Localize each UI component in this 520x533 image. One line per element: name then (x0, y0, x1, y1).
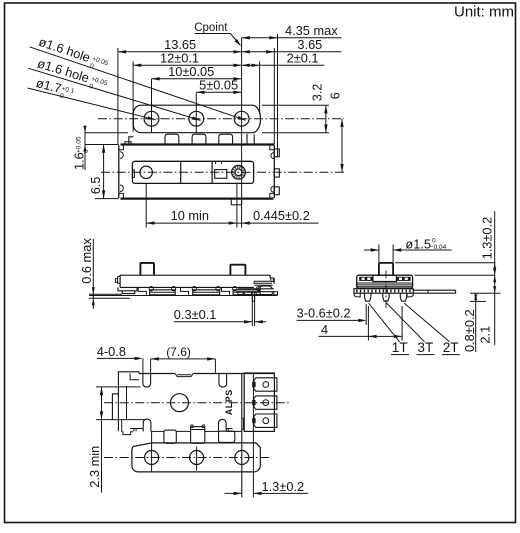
front elevation: right end base plate (236, 275, 278, 301)
dimension 6 (centerline distance) (328, 92, 343, 172)
bottom view centerline (104, 402, 290, 404)
svg-text:0: 0 (59, 93, 65, 101)
top view: terminal strip plate (133, 105, 260, 133)
side view: terminal pins (365, 293, 407, 301)
bottom view center hole (171, 394, 189, 412)
dimension 12±0.1 and 2±0.1 (133, 51, 324, 67)
svg-text:0.6 max: 0.6 max (79, 238, 94, 284)
svg-text:Cpoint: Cpoint (194, 22, 228, 34)
top-left corner piece (118, 372, 138, 386)
strip centerline (104, 457, 271, 459)
svg-text:ALPS: ALPS (224, 389, 234, 415)
pin leaders to 1T 3T 2T (369, 303, 460, 355)
body bottom edge (120, 286, 254, 288)
right foot bump (407, 293, 413, 297)
svg-text:2±0.1: 2±0.1 (287, 51, 319, 66)
bottom center tab (231, 199, 241, 205)
dimension 3.2 (strip width) (262, 84, 329, 133)
svg-text:4-0.8: 4-0.8 (97, 344, 126, 359)
knob inner circle (235, 169, 242, 176)
bottom view: body outline (112, 372, 274, 498)
front elevation: gull-wing terminals (149, 287, 261, 295)
body centerline (101, 171, 344, 173)
strip centerline (98, 118, 344, 120)
svg-text:0: 0 (83, 149, 90, 153)
cavity divider 1 (180, 161, 182, 183)
dimension 0.6 max (79, 238, 130, 309)
svg-text:−0.04: −0.04 (430, 244, 447, 251)
svg-text:5±0.05: 5±0.05 (199, 78, 238, 93)
dimension 10±0.05 (152, 64, 242, 80)
svg-text:10 min: 10 min (171, 208, 209, 223)
svg-text:1.3±0.2: 1.3±0.2 (480, 217, 495, 260)
tab TR (219, 374, 227, 388)
slider hole (alternate position) (140, 166, 152, 178)
dimension 13.65 and 3.65 (118, 37, 342, 53)
ALPS logo (224, 389, 234, 415)
tab TL (143, 374, 151, 388)
body right edge (273, 145, 275, 198)
strip hole1 line (151, 432, 153, 472)
svg-text:2T: 2T (443, 340, 459, 355)
side view right extension lines (395, 263, 501, 302)
svg-text:Unit: mm: Unit: mm (454, 4, 514, 21)
plate extension bottom (413, 292, 455, 294)
left edge bump lower (120, 185, 123, 192)
elevation knob 2 (230, 265, 245, 276)
hole1 center extension line (151, 79, 153, 133)
plate bottom extension (470, 292, 501, 294)
detent tick (132, 170, 134, 178)
right edge bump lower (271, 186, 274, 192)
dimension 1.6 (left) (72, 126, 129, 171)
dimension 4-0.8 (97, 344, 143, 360)
strip hole 3 (235, 451, 249, 465)
svg-text:6: 6 (328, 92, 342, 99)
svg-text:6.5: 6.5 (89, 177, 103, 194)
svg-text:3-0.6±0.2: 3-0.6±0.2 (297, 305, 351, 320)
cavity divider 2 (211, 161, 213, 183)
top center notch (175, 374, 193, 377)
terminal pad cy=402.6 (254, 396, 277, 409)
top view: switch body outline (119, 142, 279, 205)
pin tip extension (470, 300, 486, 302)
svg-text:1T: 1T (392, 340, 408, 355)
body left edge (118, 145, 120, 198)
bottom view: metal base strip (132, 443, 260, 472)
strip hole 1 (145, 451, 159, 465)
plate divider tick (427, 290, 429, 293)
bottom view: middle contact tabs (164, 425, 235, 444)
knob knurl ring (234, 167, 244, 177)
terminal pad cy=420.7 (254, 414, 277, 427)
hole callout leaders (28, 47, 246, 121)
left edge (117, 386, 119, 432)
left inner line (126, 386, 128, 420)
0.3 bent-down pin (252, 292, 254, 302)
tab BL (143, 419, 151, 431)
svg-text:0.445±0.2: 0.445±0.2 (253, 208, 310, 223)
tab3 step (226, 429, 232, 432)
svg-text:2.3 min: 2.3 min (87, 446, 102, 488)
Cpoint center line (241, 38, 243, 228)
strip hole 2 (190, 451, 204, 465)
svg-text:4.35 max: 4.35 max (285, 23, 338, 38)
inner cavity rounded rect (132, 161, 253, 183)
tab 2 (191, 427, 205, 444)
mounting plane line (89, 295, 278, 297)
body top edge (thick) (121, 143, 275, 145)
knurled knob outer (232, 165, 246, 179)
tab 3 foot block (219, 431, 235, 442)
svg-text:0.3±0.1: 0.3±0.1 (174, 307, 217, 322)
dimension 4.35 max (242, 23, 342, 39)
knob top extension (395, 262, 495, 264)
front elevation: left mounting foot (118, 287, 137, 293)
hole 2 (middle, 1.6mm) (189, 111, 204, 126)
svg-text:2.1: 2.1 (478, 326, 493, 344)
body left edge (119, 275, 121, 287)
dimension 0.3±0.1 (174, 296, 266, 327)
svg-text:4: 4 (321, 322, 328, 337)
tab BR (219, 419, 227, 431)
corner step BL (119, 193, 124, 198)
hole 1 (left, 1.6mm) (144, 111, 159, 126)
svg-text:3T: 3T (417, 340, 433, 355)
dimension 3-0.6±0.2 (297, 305, 367, 322)
elevation knob 1 (140, 263, 154, 275)
svg-text:0: 0 (88, 83, 94, 91)
strip hole2 line (196, 447, 198, 471)
svg-text:+0.05: +0.05 (91, 55, 109, 67)
bottom view: bottom edge and left boot (96, 420, 242, 435)
svg-text:ø1.5: ø1.5 (405, 236, 431, 251)
corner step TL (119, 145, 124, 150)
dimension 10 min and 0.445±0.2 (146, 184, 318, 228)
svg-text:0.8±0.2: 0.8±0.2 (462, 309, 477, 352)
bottom view: right terminal block (244, 373, 277, 497)
small tab above top edge (125, 142, 131, 145)
body bottom edge (thick) (121, 198, 274, 200)
top edge right segment (193, 373, 274, 375)
top view: slider cavity (132, 161, 253, 183)
right edge jog (242, 418, 244, 429)
interior contact rect (215, 170, 227, 179)
pad neck line / 1.3 extension (252, 373, 254, 497)
svg-text:1.3±0.2: 1.3±0.2 (262, 479, 305, 494)
svg-text:3.2: 3.2 (310, 84, 324, 101)
corner step BR (270, 193, 275, 198)
left side tab (115, 276, 120, 283)
plate extension top (413, 289, 455, 291)
terminal pad cy=384.5 (254, 378, 277, 391)
knob base (373, 275, 397, 281)
side view centerline (385, 271, 387, 311)
dimension ø1.5 (knob width) (364, 236, 452, 262)
side view: actuator knob (379, 263, 393, 275)
left protruding plate edge (112, 394, 118, 420)
hole 3 (Cpoint, 1.7mm) (234, 111, 249, 126)
hole2 center extension line (195, 92, 197, 132)
Cpoint label and leader (194, 22, 241, 46)
svg-text:+0.05: +0.05 (76, 136, 83, 153)
dimension 5±0.05 (196, 78, 241, 94)
strip-to-body terminal legs (129, 134, 254, 145)
front elevation: body (115, 275, 270, 287)
side view: base plate with crimp pattern (354, 289, 456, 297)
left edge bump upper (120, 152, 123, 159)
body top edge (120, 274, 270, 276)
top-left notch (130, 374, 139, 380)
dimension 6.5 (body height) (89, 145, 119, 199)
top edge left segment (139, 373, 175, 375)
body top extension (415, 274, 496, 276)
side view: body stack (357, 275, 413, 288)
label ø1.7 (34, 75, 77, 102)
body right edge / hole3 extension (241, 374, 243, 498)
label ø1.6 hole (1) (36, 34, 111, 75)
far-side feet marks (138, 287, 229, 294)
bottom view: 4 corner tabs (4-0.8) (143, 374, 227, 432)
dimension (7.6) (143, 345, 216, 373)
label ø1.6 hole (2) (35, 56, 110, 95)
right side tab 2 (274, 169, 279, 177)
left foot bump (354, 293, 360, 297)
dimension 0.8±0.2 (462, 293, 477, 352)
dimension 1.3±0.2 (bottom) (224, 479, 308, 495)
dimension 1.3±0.2 and 2.1 (right) (478, 211, 497, 345)
right side tab 3 (274, 187, 279, 195)
dimension 2.3 min (87, 387, 141, 493)
square tab (164, 430, 176, 443)
extension lines top dims (118, 34, 278, 157)
svg-text:ø1.7: ø1.7 (35, 75, 63, 96)
svg-text:1.6: 1.6 (72, 152, 87, 170)
right edge bump upper (271, 153, 274, 159)
svg-text:(7.6): (7.6) (166, 345, 191, 359)
right side tab 1 (274, 149, 279, 157)
dimension 4 (pin pitch) (319, 304, 403, 341)
bent tab hump (258, 286, 272, 289)
corner step TR (270, 145, 275, 150)
